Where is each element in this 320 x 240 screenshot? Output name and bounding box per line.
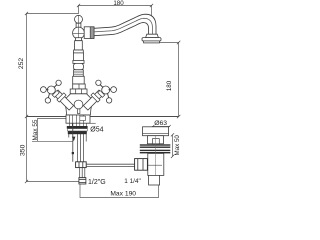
drain: rod line inside	[148, 164, 162, 166]
dimension Max 190	[80, 184, 159, 197]
body: centre ball	[74, 100, 83, 109]
right handle: stem	[83, 90, 103, 110]
1/2G thread box	[79, 178, 86, 184]
dimension 252: ticks	[25, 12, 28, 118]
column: ring 2	[73, 60, 84, 63]
base plate detail box	[80, 116, 86, 120]
faucet: finial neck	[76, 23, 81, 27]
spout: upper curve line	[94, 14, 156, 34]
svg-text:350: 350	[19, 144, 26, 156]
spout outlet: bottom ring	[144, 41, 160, 43]
column: rings 3	[74, 70, 84, 77]
countertop line	[27, 116, 179, 118]
svg-text:Ø54: Ø54	[90, 126, 103, 133]
drain: tailpipe	[149, 175, 160, 185]
mounting nut (hatched)	[67, 126, 88, 129]
spout outlet: collar	[146, 34, 159, 37]
svg-text:180: 180	[113, 0, 124, 7]
drain: hex nut for rod	[135, 159, 148, 171]
svg-text:Max 190: Max 190	[110, 191, 136, 198]
spout: lower curve line	[94, 23, 149, 36]
spout: middle line	[94, 18, 152, 34]
supply pipes	[69, 134, 86, 162]
faucet: column centre line	[78, 15, 80, 93]
horizontal pop-up linkage rod	[86, 164, 137, 166]
svg-text:Max 50: Max 50	[174, 135, 181, 156]
right handle: ball S	[106, 98, 111, 103]
left handle: ball NE	[56, 80, 61, 85]
drain: neck	[147, 136, 163, 144]
dimension Max 50: line	[172, 135, 174, 157]
rod clamp	[76, 162, 87, 168]
column: neck under ball	[76, 38, 82, 41]
drain: neck detail	[153, 139, 160, 144]
svg-text:1/2"G: 1/2"G	[88, 179, 106, 186]
left handle: ball W	[41, 87, 47, 93]
spout outlet: flange	[142, 38, 161, 41]
body: centre stem	[78, 109, 80, 114]
body: bell outline	[64, 94, 92, 115]
drain: Ø63 dim line	[152, 126, 170, 128]
dimension 252 left: extension + dim line	[27, 14, 79, 117]
right handle: collar band	[91, 93, 100, 102]
dimension 180 top: ticks	[77, 4, 153, 7]
column: shaft upper	[75, 41, 83, 50]
pop-up rod (vertical)	[72, 123, 74, 162]
spout: collar	[84, 27, 94, 39]
left handle: spokes	[46, 85, 57, 98]
base plate internal lines	[70, 115, 87, 126]
column: crown	[70, 89, 87, 94]
left handle: hub	[47, 86, 55, 94]
right handle: bonnet	[98, 90, 105, 97]
drain: centre line	[155, 136, 157, 176]
dimension 180 top: dim line	[79, 6, 152, 17]
column: ring 1	[74, 50, 84, 53]
column: block	[73, 84, 86, 89]
right handle: ball E	[111, 87, 117, 93]
dimension 180 right: ticks	[177, 41, 180, 119]
column: segment 2	[73, 53, 83, 61]
pipes below clamp	[80, 168, 85, 178]
base plate	[66, 115, 90, 123]
pop-up rod tick	[72, 152, 74, 154]
svg-text:Ø63: Ø63	[154, 120, 167, 127]
right handle: hub	[102, 86, 110, 94]
dimension 350: tick	[25, 180, 28, 183]
drain: body tube	[148, 153, 164, 175]
faucet: ball elbow	[73, 27, 85, 39]
svg-text:180: 180	[166, 80, 173, 91]
left handle: stem	[54, 90, 74, 110]
right handle: ball NW	[96, 80, 101, 85]
label Ø54 leader	[88, 122, 96, 124]
faucet: finial ball	[75, 15, 83, 23]
left handle: collar band	[57, 93, 66, 102]
dimension 350 left: dim line	[27, 117, 80, 182]
svg-text:252: 252	[18, 58, 25, 70]
drain: washer stripes	[140, 144, 171, 145]
left handle: ball S	[45, 98, 50, 103]
right handle: spokes	[100, 85, 111, 98]
dimension Max 55: arrow	[72, 137, 76, 142]
column: segment 4	[73, 76, 85, 84]
dimension Max 55: bracket	[32, 119, 73, 142]
dimension 180 right (height): extension	[160, 43, 179, 117]
faucet: ball equator line	[73, 33, 85, 35]
drain: cap	[143, 127, 169, 136]
svg-text:Max 55: Max 55	[32, 119, 39, 140]
left handle: bonnet	[52, 90, 59, 97]
column: segment 3 (rounded)	[73, 63, 83, 69]
svg-text:1 1/4": 1 1/4"	[124, 178, 140, 185]
